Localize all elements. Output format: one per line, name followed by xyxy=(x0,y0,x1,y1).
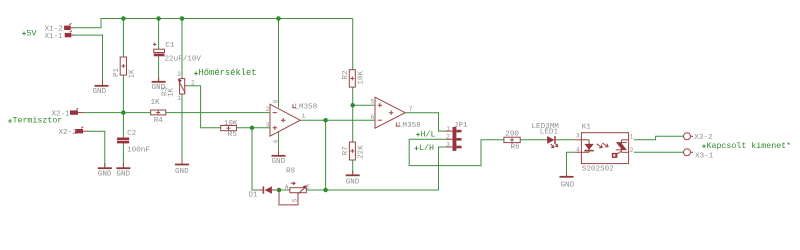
svg-text:1K: 1K xyxy=(151,99,161,107)
junction rail-C1 xyxy=(156,16,161,21)
wire R3 bottom to ground xyxy=(181,94,183,163)
wire K1 pin2 to X3-1 xyxy=(634,151,684,153)
svg-text:D1: D1 xyxy=(249,192,259,200)
svg-text:L/H: L/H xyxy=(419,143,434,153)
svg-text:3: 3 xyxy=(266,121,270,128)
svg-text:A: A xyxy=(285,184,289,191)
svg-text:22uF/10V: 22uF/10V xyxy=(165,55,202,63)
connector pin X2-2 xyxy=(59,127,89,137)
svg-text:GND: GND xyxy=(346,179,360,187)
wire R3 branch from rail xyxy=(181,19,183,79)
connector pin X3-1 xyxy=(684,149,714,161)
trimmer R8 xyxy=(279,167,310,205)
wire op-amp U1B output to JP1 pin1 xyxy=(405,113,446,131)
ground symbol K1 xyxy=(560,172,575,190)
wire X1-1 to GND xyxy=(73,35,103,81)
svg-text:R4: R4 xyxy=(154,117,164,125)
svg-text:LED1: LED1 xyxy=(540,129,559,137)
junction rail-pin8 xyxy=(276,16,281,21)
solid state relay K1 S202S02 xyxy=(574,124,633,174)
svg-text:1: 1 xyxy=(446,125,450,132)
svg-text:3: 3 xyxy=(576,133,580,140)
svg-text:C1: C1 xyxy=(165,42,175,50)
wire R5 to op-amp pin3 xyxy=(236,127,270,129)
ground symbol R7 xyxy=(346,171,360,187)
svg-text:GND: GND xyxy=(98,171,112,179)
op-amp U1B LM358 xyxy=(371,97,422,130)
svg-text:1K: 1K xyxy=(129,69,137,79)
net label Kapcsolt kimenet xyxy=(702,141,791,151)
svg-text:GND: GND xyxy=(116,171,130,179)
capacitor C1 xyxy=(153,42,201,64)
svg-text:6: 6 xyxy=(371,114,375,121)
wire D1 to R8 junction xyxy=(276,189,290,191)
junction thermistor node xyxy=(121,110,126,115)
svg-text:1: 1 xyxy=(177,95,181,102)
svg-text:R2: R2 xyxy=(342,70,350,80)
resistor R6 xyxy=(504,131,520,152)
junction R8-feedback xyxy=(323,188,328,193)
capacitor C2 xyxy=(117,130,150,155)
wire P1 branch down from rail xyxy=(122,19,124,58)
wire C1 bottom to ground xyxy=(158,56,160,81)
svg-text:X2-2: X2-2 xyxy=(59,129,78,137)
svg-text:R7: R7 xyxy=(342,146,350,155)
svg-text:7: 7 xyxy=(409,106,413,113)
op-amp U1A LM358 xyxy=(266,99,318,143)
resistor R7 xyxy=(342,142,366,160)
svg-text:5: 5 xyxy=(371,99,375,106)
wire R6 to LED1 xyxy=(520,139,547,141)
svg-text:K1: K1 xyxy=(582,124,592,132)
svg-text:GND: GND xyxy=(175,168,189,176)
svg-text:2: 2 xyxy=(191,80,195,87)
svg-text:X3-2: X3-2 xyxy=(694,134,713,142)
net label L/H xyxy=(415,143,434,153)
svg-text:100nF: 100nF xyxy=(127,146,150,154)
connector pin X2-1 xyxy=(52,108,84,118)
svg-text:GND: GND xyxy=(272,158,286,166)
wire K1 pin4 to ground xyxy=(567,152,575,176)
svg-text:4: 4 xyxy=(576,147,580,154)
wire op-amp U1A pin4 to ground xyxy=(278,132,280,155)
svg-text:Termisztor: Termisztor xyxy=(13,116,63,126)
svg-text:3: 3 xyxy=(177,71,181,78)
svg-text:S202S02: S202S02 xyxy=(582,166,614,174)
junction divider node pin5 xyxy=(350,103,355,108)
svg-text:200: 200 xyxy=(505,131,519,139)
diode D1 xyxy=(249,186,277,199)
pin header JP1 xyxy=(446,122,468,151)
svg-text:2: 2 xyxy=(630,147,634,154)
wire op-amp U1A output to U1B pin6 xyxy=(300,119,375,121)
wire C2 bottom to ground xyxy=(122,143,124,167)
net label Homerseklet xyxy=(194,68,256,78)
svg-text:R6: R6 xyxy=(510,144,520,152)
connector pin X1-2 xyxy=(45,23,74,33)
svg-text:X3-1: X3-1 xyxy=(695,152,714,160)
svg-text:P1: P1 xyxy=(113,67,121,77)
svg-text:10K: 10K xyxy=(224,120,238,128)
svg-text:22K: 22K xyxy=(358,145,366,159)
svg-text:10K: 10K xyxy=(358,70,366,84)
svg-text:1: 1 xyxy=(630,134,634,141)
wire R8 to feedback column and JP1 pin3 xyxy=(306,147,446,190)
svg-text:Kapcsolt kimenet*: Kapcsolt kimenet* xyxy=(707,141,792,151)
ground symbol C2 xyxy=(116,163,130,179)
svg-text:2: 2 xyxy=(266,106,270,113)
svg-text:GND: GND xyxy=(561,182,575,190)
resistor R5 xyxy=(221,120,238,139)
junction D1-R8 xyxy=(277,188,282,193)
junction rail-P1 xyxy=(121,16,126,21)
resistor P1 xyxy=(113,57,137,79)
svg-text:JP1: JP1 xyxy=(454,122,468,130)
svg-text:H/L: H/L xyxy=(421,129,436,139)
junction rail-R3 xyxy=(180,16,185,21)
wire R5 node down to D1 xyxy=(252,128,259,190)
wire output down to feedback row xyxy=(325,120,327,190)
ground symbol X1 xyxy=(93,81,109,97)
LED LED1 xyxy=(532,123,560,148)
net label Termisztor xyxy=(8,116,62,126)
wire K1 pin1 to X3-2 xyxy=(634,136,684,140)
svg-text:1: 1 xyxy=(302,113,306,120)
wire node to R4 xyxy=(123,112,150,114)
ground symbol R3 xyxy=(175,160,189,177)
wire X2-2 to ground xyxy=(88,131,105,167)
wire R3 wiper to R5 xyxy=(186,86,221,128)
wire C1 branch from rail xyxy=(158,19,160,50)
trimmer R3 xyxy=(162,71,196,102)
net label 5V xyxy=(22,30,36,39)
svg-text:X1-1: X1-1 xyxy=(45,33,64,41)
junction op-amp U1A output xyxy=(323,118,328,123)
svg-text:R8: R8 xyxy=(286,167,296,175)
ground symbol X2-2 xyxy=(98,163,112,179)
junction R5 op-amp pin3 xyxy=(250,126,255,131)
resistor R4 xyxy=(151,99,166,125)
svg-text:LM358: LM358 xyxy=(295,104,318,112)
svg-text:E: E xyxy=(306,184,310,191)
svg-text:C2: C2 xyxy=(127,130,137,138)
svg-text:5V: 5V xyxy=(27,30,37,39)
resistor R2 xyxy=(342,70,366,87)
svg-text:LM358: LM358 xyxy=(398,122,421,130)
connector pin X3-2 xyxy=(684,133,713,142)
wire JP1 pin2 to R6 xyxy=(409,139,504,165)
svg-text:GND: GND xyxy=(93,88,107,96)
wire 5V rail from X1-2 to top rail xyxy=(73,19,353,28)
connector pin X1-1 xyxy=(45,31,75,41)
svg-text:S: S xyxy=(291,198,298,202)
ground symbol op-amp pin4 xyxy=(272,151,286,166)
ground symbol C1 xyxy=(152,77,166,92)
wire P1 bottom to node xyxy=(122,75,124,137)
wire R7 bottom to ground xyxy=(352,160,354,175)
svg-text:Hőmérséklet: Hőmérséklet xyxy=(199,68,257,78)
wire R4 to op-amp pin2 xyxy=(166,112,270,114)
svg-text:2: 2 xyxy=(446,134,450,141)
svg-text:8: 8 xyxy=(273,99,280,103)
svg-text:3: 3 xyxy=(446,141,450,148)
wire LED1 to K1 pin3 xyxy=(556,139,574,141)
wire divider node to op-amp U1B pin5 xyxy=(353,104,375,106)
net label H/L xyxy=(416,129,435,139)
svg-text:R5: R5 xyxy=(228,131,238,139)
wire X2-1 to node xyxy=(83,112,123,114)
svg-text:4: 4 xyxy=(273,140,280,144)
wire op-amp U1A pin8 supply xyxy=(278,19,280,108)
svg-text:1K: 1K xyxy=(168,87,176,97)
wire R2 bottom through node to R7 xyxy=(352,87,354,142)
wire R2 branch from rail xyxy=(352,19,354,70)
